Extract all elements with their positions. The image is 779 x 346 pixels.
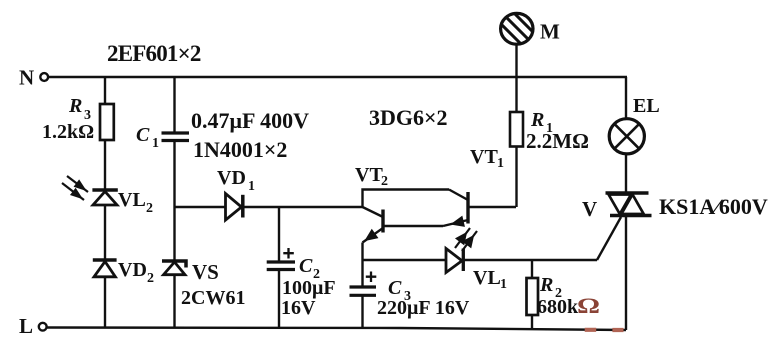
svg-text:EL: EL (633, 95, 660, 117)
svg-text:16V: 16V (281, 297, 316, 319)
diode VD1 (217, 167, 255, 220)
svg-text:VL: VL (473, 267, 501, 289)
terminal N (19, 66, 48, 90)
svg-text:2.2MΩ: 2.2MΩ (526, 129, 589, 153)
svg-text:2: 2 (146, 201, 153, 216)
svg-text:R: R (68, 95, 82, 117)
svg-text:1.2kΩ: 1.2kΩ (42, 121, 94, 143)
svg-text:0.47μF 400V: 0.47μF 400V (191, 108, 309, 133)
wire C2 branch (278, 207, 280, 262)
wire emitter node to VL1 (363, 259, 447, 261)
svg-text:VL: VL (118, 189, 146, 211)
svg-text:1: 1 (248, 179, 255, 194)
wire R3 to VL2 (104, 140, 106, 190)
wire VD1 to VT2 node (243, 206, 363, 208)
wire C3 to bottom rail (361, 295, 363, 328)
diode VD2 (93, 259, 154, 286)
svg-text:R: R (539, 274, 553, 296)
zener VS 2CW61 (162, 260, 245, 309)
transistor VT1 (443, 146, 516, 226)
wire VL2 to VD2 (104, 205, 106, 261)
light arrows into VL2 (62, 176, 88, 200)
wire VL1 to triac gate run (464, 259, 598, 261)
wire triac to bottom rail (625, 216, 627, 331)
light arrows out of VL1 (455, 228, 477, 251)
watermark red dashes (585, 328, 624, 332)
resistor R3 (42, 95, 114, 143)
svg-text:VD: VD (217, 167, 246, 189)
svg-text:VD: VD (118, 259, 147, 281)
resistor R1 (510, 109, 589, 153)
svg-text:R: R (530, 109, 544, 131)
svg-text:3DG6×2: 3DG6×2 (369, 105, 448, 130)
wire collector rail VT2/VT1 (363, 190, 450, 208)
svg-text:Ω: Ω (577, 293, 600, 318)
svg-text:C: C (136, 124, 150, 146)
svg-text:2: 2 (381, 174, 388, 189)
svg-text:L: L (19, 314, 33, 338)
wire VS/C1 node to VD1 (175, 206, 226, 208)
svg-text:1: 1 (152, 136, 159, 151)
wire bottom rail (46, 328, 626, 331)
photodiode VL2 (92, 189, 153, 216)
capacitor C3 (350, 272, 470, 320)
wire top rail N to right corner (48, 76, 627, 78)
wire C2 to bottom rail (278, 270, 280, 329)
transistor VT2 (355, 164, 443, 243)
wire gate diagonal (597, 217, 621, 260)
svg-text:1: 1 (500, 277, 507, 292)
motor M (488, 5, 560, 59)
svg-text:VT: VT (355, 164, 383, 186)
terminal L (19, 314, 47, 338)
svg-text:680k: 680k (537, 296, 579, 318)
svg-text:VT: VT (470, 146, 498, 168)
wire R2 to bottom rail (531, 315, 533, 328)
resistor R2 (527, 274, 601, 318)
wire motor to R1 (515, 45, 517, 112)
wire EL drop from top rail (625, 77, 627, 118)
wire VD2 to bottom rail (104, 277, 106, 328)
svg-text:2: 2 (147, 271, 154, 286)
wire VT2 emitter to C3 node (361, 243, 363, 288)
LED VL1 (446, 249, 507, 293)
wire EL to triac (625, 155, 627, 193)
wire left column top (rail to R3) (104, 77, 106, 104)
capacitor C2 (267, 248, 336, 319)
wire R1 to VT1 base (515, 147, 517, 208)
svg-text:N: N (19, 66, 34, 90)
capacitor C1 (136, 108, 309, 162)
svg-text:M: M (540, 20, 560, 44)
svg-text:2EF601×2: 2EF601×2 (107, 41, 201, 66)
svg-text:KS1A∕600V: KS1A∕600V (659, 194, 768, 219)
svg-text:1: 1 (497, 156, 504, 171)
svg-text:V: V (582, 197, 597, 221)
wire VS to bottom rail (173, 275, 175, 328)
wire R2 branch (531, 260, 533, 278)
svg-text:100μF: 100μF (282, 277, 336, 299)
svg-text:C: C (299, 255, 313, 277)
triac V KS1A/600V (582, 193, 768, 221)
svg-text:VS: VS (192, 260, 219, 284)
svg-text:1N4001×2: 1N4001×2 (193, 137, 287, 162)
lamp EL (609, 95, 659, 154)
wire C1 column top (173, 77, 175, 133)
svg-text:C: C (388, 277, 402, 299)
label 3DG6x2 (369, 105, 448, 130)
svg-text:220μF 16V: 220μF 16V (377, 297, 470, 319)
svg-text:2CW61: 2CW61 (181, 287, 245, 309)
wire C1 to VS column (173, 141, 175, 262)
label 2EF601x2 (107, 41, 201, 66)
